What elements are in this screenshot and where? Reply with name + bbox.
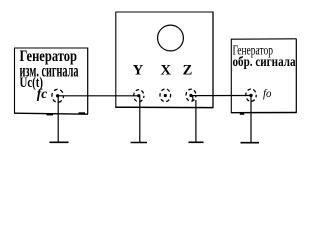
generator block G2 (Генератор обр. сигнала)	[231, 39, 297, 115]
svg-text:обр. сигнала: обр. сигнала	[233, 55, 296, 70]
generator block G1 (Генератор изм. сигнала)	[14, 48, 88, 116]
wire fo to ground	[250, 96, 252, 143]
CRT screen circle	[158, 25, 184, 51]
terminal fc (coax connector)	[52, 89, 64, 102]
ground 3 (Z)	[189, 141, 204, 143]
terminal Y	[134, 90, 144, 102]
oscilloscope block (CRT)	[115, 12, 213, 108]
wire Y to ground	[139, 97, 141, 143]
label G1 line2 "изм. сигнала"	[20, 61, 79, 81]
svg-text:fo: fo	[263, 88, 272, 100]
wire fc to Y	[58, 95, 139, 97]
svg-text:fc: fc	[37, 86, 48, 101]
terminal Z	[186, 89, 196, 101]
ground 2 (Y)	[131, 142, 148, 144]
svg-text:X: X	[161, 62, 172, 78]
terminal fo	[246, 89, 256, 101]
wire Z to ground (lower)	[195, 100, 197, 142]
wire Z to ground (upper jog)	[192, 96, 194, 101]
svg-text:Z: Z	[183, 62, 193, 78]
wire fc to ground	[57, 96, 59, 142]
wire Z to fo	[191, 95, 251, 97]
svg-text:Y: Y	[133, 62, 144, 78]
terminal X	[160, 89, 171, 102]
ground 1 (fc)	[50, 141, 69, 143]
ground 4 (fo)	[241, 142, 260, 144]
